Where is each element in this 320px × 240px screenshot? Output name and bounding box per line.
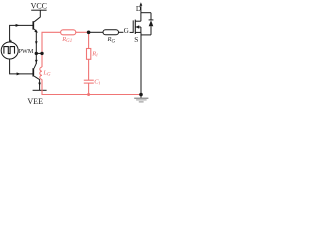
wire ground stub [140,95,142,98]
MOSFET Q3 body stub [135,26,141,28]
svg-text:VEE: VEE [27,97,43,106]
transistor Q1 (NPN) base bar [32,21,34,29]
body diode D1 lower wire [150,26,152,35]
MOSFET Q3 gate bar [132,20,134,33]
svg-text:PWM: PWM [19,48,34,55]
wire node down to R_i [88,32,90,48]
wire source down to ground [140,32,142,94]
wire top to body diode [141,12,151,14]
node dot at ground junction [139,93,143,97]
wire diode bottom to source [141,34,151,36]
wire VCC to Q1 collector [34,10,40,22]
MOSFET Q3 drain stub [135,20,141,22]
transistor Q2 (PNP) base bar [32,68,34,76]
drain terminal arrow up [140,5,142,13]
wire node to R_G [89,31,103,33]
svg-text:Ri: Ri [91,50,98,58]
node dot left (emitter rail) [35,52,38,55]
wire PWM bottom to Q2 base [10,59,34,74]
svg-text:RG: RG [107,36,116,44]
svg-text:S: S [134,36,138,44]
capacitor C_i top plate [84,79,94,81]
svg-text:Ci: Ci [94,79,100,87]
MOSFET Q3 body arrowhead [136,25,140,28]
svg-text:G: G [124,27,129,35]
transistor Q2 collector [34,76,39,90]
wire gate loop top (red) [42,32,61,53]
VEE power bar [33,89,47,91]
wire node link [36,52,42,54]
wire G to gate bar [130,31,134,33]
wire R_i to C_i [88,59,90,80]
wire drain up [140,13,142,22]
inductor L_G upper wire [41,53,43,67]
wire C_i to rail [88,83,90,94]
MOSFET Q3 source stub [135,31,141,33]
ground symbol [134,98,148,102]
body diode D1 branch upper wire [150,13,152,20]
inductor L_G coil [40,67,42,79]
body diode D1 triangle [149,20,154,26]
capacitor C_i bottom plate [84,82,94,84]
Q1 emitter arrowhead [34,30,38,33]
resistor R_G body [103,30,119,35]
wire R_G1 to node [76,31,89,33]
svg-text:LG: LG [42,69,51,77]
wire PWM to Q1 base [10,25,34,42]
VCC power bar [31,9,46,11]
svg-text:RG1: RG1 [61,36,72,44]
current arrow on emitter rail [35,41,38,44]
wire R_G to gate [119,31,124,33]
wire Q1 emitter down to node [35,32,37,53]
PWM square wave glyph [4,47,15,54]
current arrow on Q2 base wire [17,72,21,75]
node dot right (gate loop) [40,52,43,55]
transistor Q2 (PNP) emitter [34,63,36,69]
resistor R_i body [87,49,91,60]
PWM source circle [1,42,18,59]
node dot C_i rail junction (red) [87,93,90,96]
svg-text:VCC: VCC [31,2,47,11]
body diode D1 cathode bar [149,19,154,21]
current arrow tick above PWM [10,39,12,41]
MOSFET Q3 channel segments [134,20,136,34]
wire body to source [140,27,142,32]
current arrow on Q2 collector [38,83,41,86]
inductor L_G lower wire / bottom rail corner [42,79,141,94]
transistor Q1 emitter [34,29,37,32]
wire node down to Q2 emitter [35,53,37,63]
current arrow on base wire [16,24,20,27]
resistor R_G1 body [61,30,76,35]
Q2 emitter arrowhead (into base bar) [35,60,38,63]
svg-text:D: D [136,5,141,13]
node dot at gate network junction [87,31,91,35]
